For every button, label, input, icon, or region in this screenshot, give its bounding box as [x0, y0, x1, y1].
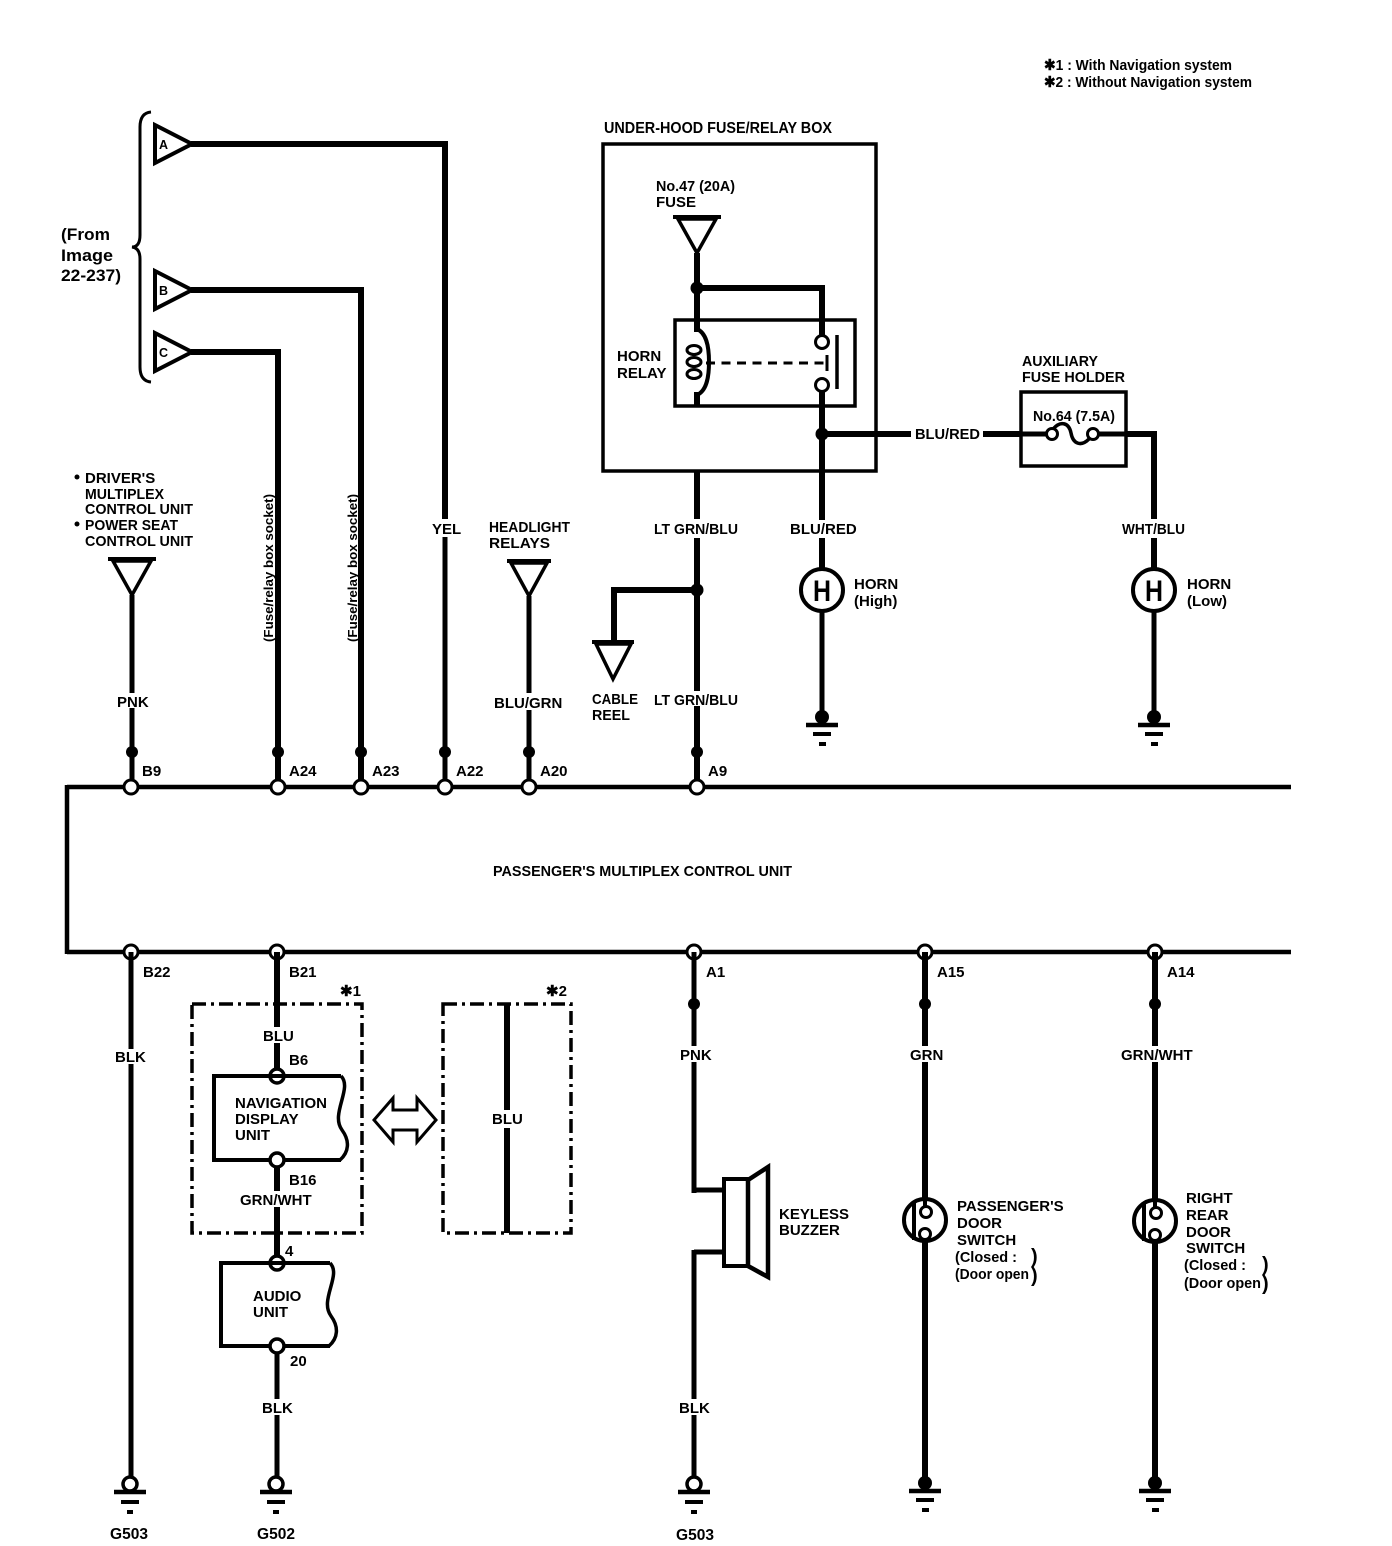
svg-text:UNIT: UNIT [235, 1127, 270, 1144]
svg-text:(Low): (Low) [1187, 593, 1227, 610]
pin B21 [270, 945, 284, 959]
horn low symbol [1133, 569, 1175, 611]
pin A23 [354, 780, 368, 794]
svg-text:BLU: BLU [492, 1111, 523, 1128]
label (From Image 22-237) [61, 225, 121, 285]
HORN (High) label [854, 576, 898, 610]
svg-text:FUSE: FUSE [656, 194, 696, 211]
svg-text:GRN/WHT: GRN/WHT [1121, 1047, 1193, 1064]
svg-text:LT GRN/BLU: LT GRN/BLU [654, 692, 738, 709]
wire A (to A22) [191, 141, 448, 782]
svg-text:H: H [1145, 575, 1163, 608]
svg-text:B16: B16 [289, 1172, 317, 1189]
svg-text:CONTROL UNIT: CONTROL UNIT [85, 501, 193, 518]
svg-text:BLK: BLK [262, 1400, 293, 1417]
svg-text:FUSE HOLDER: FUSE HOLDER [1022, 369, 1125, 386]
svg-text:DRIVER'S: DRIVER'S [85, 470, 155, 487]
passenger's multiplex control unit top bus [67, 785, 1291, 790]
svg-text:YEL: YEL [432, 521, 461, 538]
svg-text:BLU: BLU [263, 1028, 294, 1045]
svg-text:AUDIO: AUDIO [253, 1288, 302, 1305]
connector C [155, 333, 192, 371]
svg-text:(Closed :: (Closed : [1184, 1257, 1246, 1274]
svg-text:A: A [159, 138, 168, 152]
svg-text:(Fuse/relay box socket): (Fuse/relay box socket) [345, 494, 360, 642]
svg-text:RIGHT: RIGHT [1186, 1190, 1233, 1207]
svg-text:A22: A22 [456, 763, 484, 780]
svg-text:BLU/RED: BLU/RED [915, 426, 980, 443]
pin A24 [271, 780, 285, 794]
PASSENGER'S DOOR SWITCH label [955, 1198, 1064, 1287]
svg-text:A1: A1 [706, 964, 725, 981]
wire BLU/RED label to aux fuse holder [983, 431, 1022, 437]
pin A14 [1148, 945, 1162, 959]
wire stub dots above top bus [126, 746, 703, 758]
svg-text:(From: (From [61, 225, 110, 244]
passenger's multiplex control unit bottom bus [67, 950, 1291, 955]
dashed box without navigation (*2) [443, 1004, 571, 1233]
wire A15 to ground [922, 1241, 928, 1477]
passenger's door switch symbol [904, 1199, 946, 1241]
svg-text:): ) [1262, 1273, 1269, 1295]
wire fuse to relay coil [694, 253, 700, 324]
svg-text:A9: A9 [708, 763, 727, 780]
svg-text:KEYLESS: KEYLESS [779, 1206, 849, 1223]
svg-text:PASSENGER'S MULTIPLEX CONTROL: PASSENGER'S MULTIPLEX CONTROL UNIT [493, 863, 792, 880]
wire C (to A24) [191, 349, 281, 782]
svg-text:4: 4 [285, 1243, 294, 1260]
wire LT GRN/BLU down to A9 [694, 471, 700, 782]
svg-text:LT GRN/BLU: LT GRN/BLU [654, 521, 738, 538]
svg-text:A15: A15 [937, 964, 965, 981]
svg-text:C: C [159, 346, 168, 360]
horn relay box [675, 320, 855, 406]
svg-text:NAVIGATION: NAVIGATION [235, 1095, 327, 1112]
svg-text:WHT/BLU: WHT/BLU [1122, 521, 1185, 538]
wire buzzer to G503 [692, 1250, 697, 1478]
wire B (to A23) [191, 287, 364, 782]
svg-text:No.47 (20A): No.47 (20A) [656, 178, 735, 195]
svg-text:H: H [813, 575, 831, 608]
relay armature bar [835, 335, 839, 389]
svg-text:✱2 : Without Navigation system: ✱2 : Without Navigation system [1044, 74, 1252, 91]
wire branch to relay contact [694, 288, 825, 337]
pin B16 [270, 1153, 317, 1189]
pin B9 [124, 780, 138, 794]
svg-text:UNDER-HOOD FUSE/RELAY BOX: UNDER-HOOD FUSE/RELAY BOX [604, 120, 832, 137]
junction node at fuse output [691, 282, 704, 295]
relay contact upper [816, 336, 829, 349]
svg-text:SWITCH: SWITCH [957, 1232, 1016, 1249]
svg-text:✱1: ✱1 [340, 983, 361, 1000]
relay contact lower [816, 379, 829, 392]
keyless buzzer [694, 1167, 768, 1277]
svg-text:No.64 (7.5A): No.64 (7.5A) [1033, 408, 1115, 425]
ground G502 [257, 1477, 295, 1543]
horn high symbol [801, 569, 843, 611]
svg-text:DOOR: DOOR [957, 1215, 1002, 1232]
wire BLU (*2) [504, 1004, 510, 1233]
svg-text:B: B [159, 284, 168, 298]
connector B [155, 271, 192, 309]
navigation display unit box [214, 1076, 347, 1160]
svg-text:22-237): 22-237) [61, 266, 121, 285]
wire B16 to audio unit pin 4 [274, 1167, 280, 1257]
svg-text:(Closed :: (Closed : [955, 1249, 1017, 1266]
ground G503 (A1) [676, 1477, 714, 1544]
passenger's multiplex control unit left edge [65, 785, 70, 954]
right rear door switch symbol [1134, 1200, 1176, 1242]
svg-text:UNIT: UNIT [253, 1304, 288, 1321]
svg-text:BLK: BLK [679, 1400, 710, 1417]
wire A14 to ground [1152, 1242, 1158, 1477]
svg-text:DOOR: DOOR [1186, 1224, 1231, 1241]
HORN (Low) label [1187, 576, 1231, 610]
pin A1 [687, 945, 701, 959]
svg-text:(Door open: (Door open [1184, 1275, 1261, 1292]
svg-text:A20: A20 [540, 763, 568, 780]
svg-text:A14: A14 [1167, 964, 1195, 981]
svg-text:G503: G503 [110, 1526, 148, 1543]
svg-text:(Door open: (Door open [955, 1266, 1029, 1283]
svg-text:B6: B6 [289, 1052, 308, 1069]
svg-text:BLK: BLK [115, 1049, 146, 1066]
junction dot A1 [688, 998, 700, 1010]
wire horn high to ground [820, 611, 825, 714]
dashed box with navigation (*1) [192, 1004, 362, 1233]
svg-text:PNK: PNK [680, 1047, 712, 1064]
junction dot A15 [919, 998, 931, 1010]
wire audio unit to G502 [275, 1353, 280, 1478]
pin A15 [918, 945, 932, 959]
svg-text:DISPLAY: DISPLAY [235, 1111, 299, 1128]
RIGHT REAR DOOR SWITCH label [1184, 1190, 1269, 1295]
svg-text:PNK: PNK [117, 694, 149, 711]
wire relay output down [819, 390, 825, 520]
svg-text:B22: B22 [143, 964, 171, 981]
ground (horn high) [806, 710, 838, 744]
svg-text:GRN: GRN [910, 1047, 943, 1064]
svg-text:(High): (High) [854, 593, 897, 610]
svg-text:G502: G502 [257, 1526, 295, 1543]
pin 4 [270, 1243, 294, 1270]
relay moving contact tick [826, 355, 829, 371]
svg-text:G503: G503 [676, 1527, 714, 1544]
pin A20 [522, 780, 536, 794]
auxiliary fuse holder box [1021, 392, 1126, 466]
svg-text:REEL: REEL [592, 707, 630, 724]
brace for connectors A B C [132, 112, 151, 382]
wire branch to cable reel [611, 587, 700, 640]
HEADLIGHT RELAYS label [489, 519, 570, 552]
svg-text:HORN: HORN [854, 576, 898, 593]
svg-text:20: 20 [290, 1353, 307, 1370]
svg-text:PASSENGER'S: PASSENGER'S [957, 1198, 1064, 1215]
wire BLU/RED to horn high [819, 538, 825, 570]
junction dot A14 [1149, 998, 1161, 1010]
cable reel triangle [592, 642, 634, 679]
double arrow between *1 and *2 [374, 1098, 436, 1142]
AUXILIARY FUSE HOLDER label [1022, 353, 1125, 386]
relay coil [687, 320, 709, 406]
svg-text:REAR: REAR [1186, 1207, 1229, 1224]
DRIVER'S MULTIPLEX / POWER SEAT CONTROL UNIT label [75, 470, 194, 550]
svg-text:CABLE: CABLE [592, 691, 638, 708]
fuse No.47 label [656, 178, 735, 211]
driver's control unit triangle [108, 559, 156, 595]
wire A1 down [692, 952, 697, 1193]
svg-text:): ) [1031, 1265, 1038, 1287]
pin B22 [124, 945, 138, 959]
junction node relay output [816, 428, 829, 441]
connector A [155, 125, 192, 163]
ground G503 left [110, 1477, 148, 1543]
wire A14 down [1152, 952, 1158, 1200]
KEYLESS BUZZER label [779, 1206, 849, 1239]
wire A15 down [922, 952, 928, 1199]
svg-text:CONTROL UNIT: CONTROL UNIT [85, 533, 193, 550]
svg-text:SWITCH: SWITCH [1186, 1240, 1245, 1257]
svg-text:BLU/RED: BLU/RED [790, 521, 857, 538]
wire horn low to ground [1152, 611, 1157, 714]
svg-text:HEADLIGHT: HEADLIGHT [489, 519, 570, 536]
pin A22 [438, 780, 452, 794]
wire headlight relays to A20 [527, 596, 532, 782]
fuse No.47 symbol [673, 217, 721, 253]
svg-text:GRN/WHT: GRN/WHT [240, 1192, 312, 1209]
svg-text:HORN: HORN [1187, 576, 1231, 593]
svg-text:HORN: HORN [617, 348, 661, 365]
ground (A15) [909, 1476, 941, 1510]
relay actuation dashed link [706, 362, 827, 365]
wire junction to BLU/RED label [822, 431, 911, 437]
audio unit box [221, 1263, 336, 1346]
svg-text:Image: Image [61, 246, 113, 265]
pin A9 [690, 780, 704, 794]
wire B21 to navigation B6 [274, 952, 280, 1070]
svg-text:A23: A23 [372, 763, 400, 780]
svg-text:RELAYS: RELAYS [489, 535, 550, 552]
CABLE REEL label [592, 691, 638, 724]
svg-text:POWER SEAT: POWER SEAT [85, 517, 178, 534]
HORN RELAY label [617, 348, 666, 382]
fuse No.64 symbol [1021, 424, 1126, 444]
svg-text:BUZZER: BUZZER [779, 1222, 840, 1239]
svg-text:B21: B21 [289, 964, 317, 981]
pin B6 [270, 1052, 308, 1083]
svg-text:A24: A24 [289, 763, 317, 780]
svg-text:B9: B9 [142, 763, 161, 780]
svg-text:RELAY: RELAY [617, 365, 666, 382]
wire driver's unit to B9 [130, 595, 135, 782]
headlight relays triangle [507, 561, 551, 596]
wire B22 to G503 [129, 952, 134, 1478]
ground (A14) [1139, 1476, 1171, 1510]
wire aux fuse to horn low [1126, 434, 1157, 570]
svg-text:✱1 : With Navigation system: ✱1 : With Navigation system [1044, 57, 1232, 74]
svg-text:BLU/GRN: BLU/GRN [494, 695, 562, 712]
junction node to cable reel [691, 584, 704, 597]
under-hood fuse/relay box outline [603, 144, 876, 471]
pin 20 [270, 1339, 307, 1370]
svg-text:AUXILIARY: AUXILIARY [1022, 353, 1098, 370]
ground (horn low) [1138, 710, 1170, 744]
svg-text:✱2: ✱2 [546, 983, 567, 1000]
svg-text:(Fuse/relay box socket): (Fuse/relay box socket) [261, 494, 276, 642]
